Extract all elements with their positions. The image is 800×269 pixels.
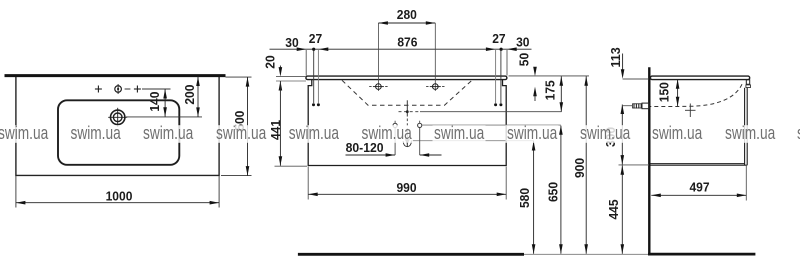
- tap hole (main, double circle with centermark): [108, 108, 127, 127]
- dim 50 (slab top to hole row): [517, 53, 537, 101]
- overflow level extension line (175): [420, 111, 562, 113]
- right fixing hole dots: [494, 103, 497, 106]
- svg-text:swim.ua: swim.ua: [71, 122, 122, 143]
- svg-text:650: 650: [545, 182, 560, 202]
- floor line (right view, thick): [648, 253, 755, 256]
- basin hidden contour (dashed): [342, 80, 472, 105]
- svg-text:1000: 1000: [106, 188, 133, 203]
- washbasin outer rim rectangle: [16, 77, 219, 175]
- svg-text:441: 441: [268, 120, 283, 140]
- svg-text:280: 280: [397, 7, 417, 22]
- tap hole center lines: [377, 23, 379, 91]
- svg-text:swim.ua: swim.ua: [580, 122, 631, 143]
- wall line: [648, 67, 650, 255]
- svg-text:swim.ua: swim.ua: [652, 122, 703, 143]
- dim line 30/27/876/27/30: [270, 31, 532, 51]
- alternative tap hole cross (left +): [95, 86, 102, 93]
- dim 500 (basin depth): [221, 77, 252, 176]
- svg-text:swim.ua: swim.ua: [725, 122, 776, 143]
- basin hidden profile (dashed): [651, 84, 743, 106]
- svg-text:20: 20: [263, 55, 278, 68]
- washbasin slab (front): [306, 76, 507, 80]
- dim 445 (floor to cabinet bottom): [606, 165, 649, 254]
- slab end extension lines: [305, 50, 307, 76]
- svg-text:swim.ua: swim.ua: [143, 122, 194, 143]
- dim 441 (cabinet height): [268, 81, 307, 166]
- svg-text:27: 27: [309, 31, 322, 46]
- slab front nose: [746, 80, 749, 85]
- dim 200 (rim top edge to tap center): [126, 77, 202, 117]
- svg-text:swim.ua: swim.ua: [0, 122, 49, 143]
- dim 150 (slab top to fixing): [656, 79, 679, 106]
- siphon connection circles (650 level): [393, 121, 422, 128]
- dim 113 (ext + arrows): [608, 47, 649, 79]
- svg-text:swim.ua: swim.ua: [216, 122, 267, 143]
- svg-text:990: 990: [396, 180, 416, 195]
- drain centermark (side): [685, 104, 696, 118]
- dim 900 (slab height): [572, 76, 588, 254]
- svg-text:175: 175: [542, 80, 557, 100]
- tap hole symbols on front: [369, 84, 444, 90]
- dim 580 (trap height): [517, 141, 535, 254]
- svg-text:30: 30: [516, 35, 529, 50]
- dim 20 (slab thickness): [263, 55, 306, 90]
- cabinet side: [650, 88, 747, 165]
- floor extension line (thin): [524, 253, 650, 255]
- drain centermark: [399, 100, 421, 116]
- dim 80-120 (siphon range): [346, 128, 442, 157]
- svg-text:140: 140: [147, 92, 162, 112]
- right fixing hole lines: [496, 50, 501, 103]
- floor line (middle view, thick): [298, 253, 524, 256]
- hinge bracket: [746, 85, 751, 88]
- svg-text:580: 580: [517, 188, 532, 208]
- slab side profile: [650, 76, 749, 80]
- svg-text:swim.ua: swim.ua: [507, 122, 558, 143]
- vanity cabinet front: [308, 80, 506, 166]
- svg-text:200: 200: [182, 85, 197, 105]
- svg-text:900: 900: [572, 158, 587, 178]
- basin inner bowl (rounded rect): [58, 100, 179, 165]
- dim 280 (tap hole spacing): [378, 7, 435, 25]
- extension line 580 level (trap): [411, 140, 534, 142]
- dim 1000 (basin width): [16, 176, 219, 208]
- svg-text:876: 876: [397, 35, 417, 50]
- dim 175 (slab top to overflow): [542, 76, 563, 112]
- svg-text:27: 27: [492, 31, 505, 46]
- svg-text:445: 445: [606, 199, 621, 219]
- svg-text:113: 113: [608, 47, 623, 67]
- svg-text:swim.ua: swim.ua: [362, 122, 413, 143]
- dim 990 (cabinet width): [308, 167, 506, 200]
- left fixing hole dots: [312, 103, 315, 106]
- dim 497 (cabinet depth): [651, 166, 746, 201]
- left fixing hole lines: [314, 50, 319, 103]
- svg-text:swim.ua: swim.ua: [434, 122, 485, 143]
- alternative tap hole (circle-cross): [115, 84, 131, 94]
- trap symbol: [403, 119, 411, 147]
- dim 140 (hole row to tap center): [142, 89, 171, 117]
- svg-text:30: 30: [285, 35, 298, 50]
- dim 650 (siphon height): [545, 125, 562, 254]
- wall strip (thick top bar): [5, 74, 226, 77]
- dim 300 (fixing to cabinet bottom): [603, 105, 633, 165]
- svg-text:swim.ua: swim.ua: [289, 122, 340, 143]
- svg-text:150: 150: [656, 82, 671, 102]
- svg-text:50: 50: [517, 53, 532, 66]
- wall fixing screw: [633, 103, 650, 109]
- slab top extension line (right): [509, 75, 590, 77]
- svg-text:497: 497: [689, 179, 709, 194]
- extension line 650 level: [422, 124, 561, 126]
- alternative tap hole cross (right +): [134, 86, 141, 93]
